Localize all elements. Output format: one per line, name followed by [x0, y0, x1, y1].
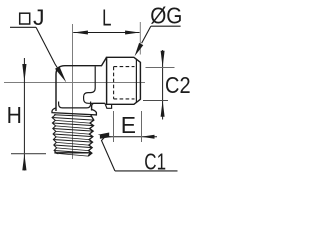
E dimension line [100, 136, 157, 138]
male tapered thread [54, 115, 92, 117]
C2 bottom extension line [143, 100, 168, 102]
vertical centerline of bottom port [72, 24, 74, 159]
ØG underline [151, 25, 181, 27]
ØG leader [142, 26, 151, 43]
E left extension line [113, 111, 115, 142]
C2 dimension line [162, 50, 164, 120]
H dimension line [23, 58, 25, 171]
H bottom extension line [11, 153, 46, 155]
svg-text:C2: C2 [165, 72, 191, 99]
C2 top extension line [146, 67, 175, 69]
svg-text:H: H [7, 102, 22, 128]
J leader diagonal [36, 27, 57, 67]
collar step under cylinder [105, 103, 112, 108]
cylinder end outline [107, 57, 141, 104]
hidden thread dashed lines [114, 67, 135, 99]
J leader underline [10, 26, 36, 28]
E right extension line [141, 111, 143, 142]
C1 underline [115, 170, 178, 172]
svg-text:J: J [33, 5, 45, 29]
C1 leader diagonal [102, 136, 115, 171]
body internal step [84, 66, 96, 103]
flange skirt [52, 108, 96, 115]
chamfer edge line [135, 59, 137, 103]
L right extension line [139, 22, 141, 55]
internal relief groove (U line) [59, 102, 91, 108]
svg-text:L: L [102, 6, 111, 31]
horizontal centerline of side port (H top extension) [4, 82, 145, 84]
neck bottom edge and body lower-right edge [92, 103, 105, 110]
L dimension line [73, 32, 139, 34]
svg-text:ØG: ØG [150, 3, 182, 29]
svg-text:E: E [121, 112, 136, 138]
elbow body outline [56, 57, 107, 111]
square symbol of J label [20, 13, 30, 24]
